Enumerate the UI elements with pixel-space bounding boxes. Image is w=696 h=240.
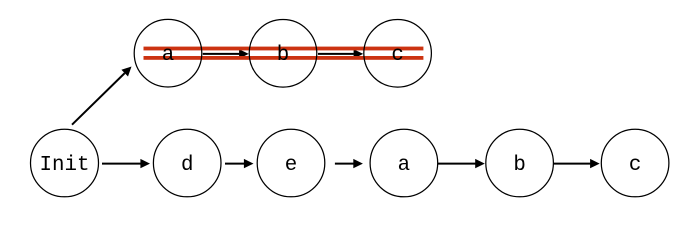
svg-text:Init: Init	[40, 154, 90, 177]
edge a->b (top)	[203, 49, 249, 58]
edge b->c (top)	[318, 49, 363, 58]
edge Init->d (bottom)	[102, 159, 150, 168]
node b (top) circle	[249, 20, 317, 88]
svg-text:b: b	[277, 44, 289, 67]
red strikethrough bar lower	[144, 56, 424, 60]
svg-text:c: c	[391, 44, 403, 67]
svg-text:a: a	[162, 44, 174, 67]
edge e->a (bottom)	[335, 159, 363, 168]
edge b->c (bottom)	[553, 159, 600, 168]
node a (top) circle	[134, 19, 202, 87]
svg-text:c: c	[629, 154, 641, 177]
node c (top) circle	[364, 20, 432, 88]
node b (bottom) circle	[486, 129, 554, 197]
node a (bottom) circle	[370, 129, 438, 197]
svg-text:d: d	[181, 154, 193, 177]
red strikethrough bar upper	[144, 47, 424, 51]
edge Init->a (diagonal)	[72, 67, 132, 125]
svg-text:a: a	[398, 154, 410, 177]
svg-text:e: e	[285, 154, 297, 177]
edge d->e (bottom)	[225, 159, 254, 168]
node c (bottom) circle	[601, 129, 669, 197]
svg-text:b: b	[513, 154, 525, 177]
edge a->b (bottom)	[438, 159, 485, 168]
node e circle	[257, 129, 325, 197]
node d circle	[153, 129, 221, 197]
node Init circle	[31, 129, 99, 197]
